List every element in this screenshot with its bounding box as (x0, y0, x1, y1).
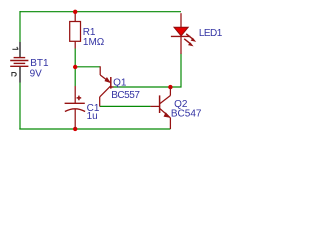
plate long (10, 59, 28, 61)
plate long bottom (10, 65, 28, 67)
wire top rail (20, 11, 181, 13)
pin number 2 (12, 72, 16, 76)
svg-text:Q1: Q1 (113, 77, 127, 88)
plate short (14, 62, 26, 64)
capacitor C1 (65, 86, 86, 128)
battery BT1 (10, 42, 28, 83)
wire node C (Q1 collector to Q2 base) (100, 105, 151, 107)
transistor Q1 (100, 66, 114, 106)
pin number 1 (12, 47, 18, 49)
junction dot at Q2 collector on node B wire (168, 85, 172, 89)
base pin stub (111, 86, 114, 88)
plus sign (77, 96, 82, 101)
plate short top (14, 57, 26, 59)
anode pin (180, 13, 182, 27)
wire node B (Q1 base to Q2 collector to LED cathode) (111, 53, 181, 87)
pin 1 (19, 42, 21, 57)
resistor R1 (70, 12, 81, 49)
collector pin vertical (99, 97, 101, 107)
bottom plate arc (65, 109, 85, 112)
emitter pin vertical (99, 66, 101, 75)
LED LED1 (171, 13, 196, 54)
collector diagonal (160, 96, 171, 104)
wire node A horizontal (R1/C1 to Q1 emitter) (75, 66, 100, 68)
transistor Q2 (150, 87, 170, 129)
emitter diagonal (160, 109, 171, 118)
cathode pin (180, 36, 182, 54)
cathode bar (171, 35, 190, 37)
junction dot at R1 top (73, 10, 77, 14)
svg-text:LED1: LED1 (199, 28, 223, 39)
triangle (174, 27, 188, 36)
junction dot at C1 bottom on bottom rail (73, 127, 77, 131)
emitter pin vertical (169, 118, 171, 129)
top plate (65, 102, 85, 104)
junction dot at node A (73, 65, 77, 69)
base pin (150, 105, 159, 107)
bottom pin (74, 109, 76, 128)
emitter arrow (points into bar) (105, 78, 110, 83)
svg-text:1MΩ: 1MΩ (83, 37, 105, 48)
base bar (159, 95, 161, 113)
svg-text:1u: 1u (87, 111, 98, 122)
wire left rail lower (19, 82, 21, 129)
svg-text:BC557: BC557 (111, 90, 140, 101)
emitter arrow (points away from bar) (164, 113, 170, 118)
base bar (110, 77, 112, 89)
svg-text:BT1: BT1 (30, 58, 49, 69)
collector pin vertical (169, 87, 171, 95)
emission arrow 2 (184, 39, 191, 44)
wire left rail upper (19, 11, 21, 42)
top pin (74, 86, 76, 103)
wire node A vertical (junction down to C1) (74, 48, 76, 86)
pin 2 (19, 67, 21, 83)
svg-text:BC547: BC547 (171, 109, 202, 120)
wire bottom rail (19, 128, 170, 130)
collector diagonal (100, 86, 111, 97)
emission arrow 1 (186, 34, 193, 40)
svg-text:9V: 9V (30, 69, 43, 80)
emitter diagonal (100, 75, 110, 82)
